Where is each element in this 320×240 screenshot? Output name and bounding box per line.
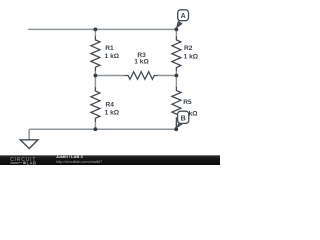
svg-text:B: B <box>181 115 186 122</box>
wire R3 left lead <box>95 75 124 77</box>
node A <box>176 10 189 29</box>
wire middle rail upper <box>94 29 96 36</box>
resistor R4 <box>91 87 100 122</box>
node B <box>176 111 189 129</box>
wire right rail upper <box>175 29 177 36</box>
svg-text:http://circuitlab.com/cba867: http://circuitlab.com/cba867 <box>56 160 102 164</box>
junction R3 right <box>175 74 179 78</box>
wire middle rail center <box>94 71 96 88</box>
junction top middle <box>94 28 98 32</box>
ground <box>20 140 38 149</box>
svg-text:R5: R5 <box>183 99 192 106</box>
svg-text:R2: R2 <box>184 45 193 52</box>
svg-text:LAB: LAB <box>27 160 37 165</box>
junction bottom middle <box>94 127 98 131</box>
wire R3 right lead <box>158 75 177 77</box>
wire bottom horizontal with bend to ground <box>29 129 176 139</box>
junction bottom right node B <box>174 127 178 131</box>
resistor R1 <box>91 36 100 71</box>
svg-text:A: A <box>181 13 186 20</box>
resistor R5 <box>172 87 181 129</box>
svg-text:Justin / LAB 3: Justin / LAB 3 <box>56 154 83 159</box>
footer CircuitLab logo <box>10 157 36 165</box>
junction top right <box>175 28 179 32</box>
wire middle rail lower <box>94 122 96 130</box>
resistor R3 <box>125 72 158 80</box>
svg-text:R1: R1 <box>105 45 114 52</box>
wire right rail center <box>175 71 177 88</box>
junction R3 left <box>94 74 98 78</box>
resistor R2 <box>172 36 181 71</box>
svg-text:1 kΩ: 1 kΩ <box>105 53 120 60</box>
wire top horizontal <box>29 28 177 30</box>
svg-text:1 kΩ: 1 kΩ <box>105 109 120 116</box>
wire right rail lower <box>175 122 177 130</box>
svg-text:1 kΩ: 1 kΩ <box>134 59 149 66</box>
svg-text:1 kΩ: 1 kΩ <box>184 54 199 61</box>
svg-text:R4: R4 <box>106 102 115 109</box>
footer watermark bar <box>0 155 220 165</box>
